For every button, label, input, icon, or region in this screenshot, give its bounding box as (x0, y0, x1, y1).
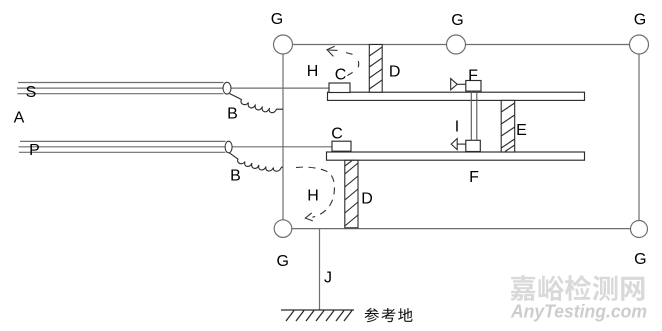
svg-text:H: H (307, 63, 319, 80)
svg-text:H: H (307, 188, 319, 205)
svg-text:G: G (634, 12, 646, 29)
svg-text:G: G (634, 251, 646, 268)
svg-text:C: C (331, 126, 343, 143)
svg-text:B: B (230, 168, 241, 185)
svg-text:F: F (468, 68, 478, 85)
svg-text:F: F (469, 169, 479, 186)
svg-text:S: S (26, 84, 37, 101)
svg-text:B: B (227, 106, 238, 123)
svg-text:G: G (271, 11, 283, 28)
svg-text:C: C (335, 67, 347, 84)
svg-text:G: G (276, 253, 288, 270)
svg-text:D: D (361, 190, 373, 207)
svg-text:AnyTesting.com: AnyTesting.com (510, 301, 647, 322)
svg-text:A: A (14, 110, 25, 127)
svg-text:E: E (516, 122, 527, 139)
svg-text:I: I (455, 119, 459, 136)
svg-text:P: P (29, 142, 40, 159)
svg-text:J: J (324, 270, 332, 287)
svg-text:G: G (451, 12, 463, 29)
svg-text:D: D (389, 64, 401, 81)
